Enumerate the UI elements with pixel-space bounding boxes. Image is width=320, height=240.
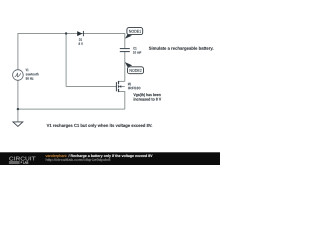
label V1 name [26,69,29,71]
wire ground stem [17,109,19,122]
label D1 value [79,42,83,45]
annotation M1 note line 1 [133,93,160,97]
footer logo LAB [23,161,28,163]
wire source lead [119,92,125,110]
footer caption url [46,158,111,161]
footer bar [0,152,220,165]
label C1 value [133,51,141,54]
wire right rail upper [124,33,126,48]
junction bottom ground node [17,108,19,110]
diode D1 [77,31,83,36]
transistor M1 gate bar [115,82,117,91]
label V1 type [26,73,39,76]
label M1 name [128,83,131,85]
footer caption username [46,154,67,157]
transistor M1 body line and arrow [119,85,125,87]
node NODE1 flag pointer [125,34,132,38]
label M1 value [128,87,140,90]
node NODE1 box [127,28,143,35]
annotation battery note [149,47,213,51]
node NODE2 text [130,69,142,72]
label V1 value [26,77,34,80]
node NODE1 text [129,30,141,33]
wire left rail lower [17,80,19,109]
node NODE2 box [128,67,144,74]
wire bottom rail [18,108,125,110]
footer caption title [69,154,153,157]
ground [13,122,23,127]
voltage source V1 [13,70,24,81]
footer logo dashes [9,161,20,163]
wire drain lead [119,80,125,82]
capacitor C1 [120,49,130,52]
junction top gate node [65,32,67,34]
label D1 name [79,38,82,40]
annotation V1 note [47,124,152,128]
wire gate branch horizontal [66,86,116,88]
wire right rail middle [124,52,126,81]
wire gate branch vertical [65,34,67,87]
wire left rail upper [17,33,19,70]
footer logo CIRCUIT [9,157,35,161]
footer logo bolt [20,161,22,164]
node NODE2 flag pointer [125,62,132,67]
label C1 name [133,47,136,50]
annotation M1 note line 2 [134,98,162,101]
wire top rail [18,33,125,35]
transistor M1 channel segments [118,81,120,92]
